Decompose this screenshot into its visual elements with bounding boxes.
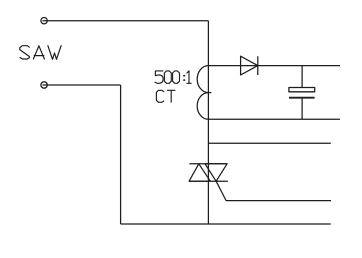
wire top input to main vertical corner [43, 20, 209, 22]
label CT [156, 90, 175, 102]
CT winding middle tap tick [208, 92, 211, 94]
wire CT bottom rail [208, 118, 340, 120]
triac Q1 top bar [189, 163, 227, 165]
wire middle rail [208, 142, 330, 144]
triac Q1 down triangle [205, 164, 227, 181]
wire main vertical bus [207, 21, 209, 224]
diode D1 [241, 56, 258, 75]
capacitor C1 bottom plate [289, 97, 315, 99]
wire capacitor bottom lead [301, 99, 303, 120]
triac Q1 bottom bar [189, 180, 228, 182]
wire capacitor top lead [301, 66, 303, 88]
wire left vertical down [120, 85, 122, 224]
wire triac gate [216, 181, 331, 200]
transformer CT winding (two arcs) [197, 66, 208, 120]
capacitor C1 top plate [289, 88, 315, 92]
wire bottom rail [121, 223, 331, 225]
terminal J2 (bottom input) [41, 82, 47, 88]
wire diode rail [208, 65, 340, 67]
triac Q1 up triangle [189, 164, 210, 181]
terminal J1 (top input) [41, 18, 47, 24]
wire bottom input horizontal [43, 84, 121, 86]
label SAW [20, 46, 61, 60]
label 500:1 [155, 71, 191, 83]
